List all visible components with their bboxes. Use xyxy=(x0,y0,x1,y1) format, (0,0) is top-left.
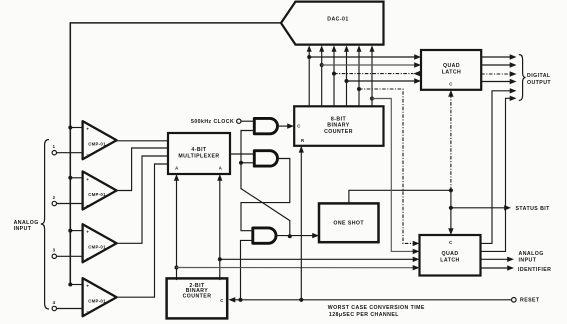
wire + input stub comparator 3 xyxy=(68,229,82,233)
terminal input 1 xyxy=(52,144,56,155)
svg-text:–: – xyxy=(86,203,89,208)
wire terminal 1 to comparator 1 - input xyxy=(57,152,83,154)
svg-text:CMP-01: CMP-01 xyxy=(88,192,106,197)
wire counter bit 4 to latch row 4 xyxy=(347,78,422,83)
svg-text:4-BIT: 4-BIT xyxy=(191,147,207,153)
svg-text:COUNTER: COUNTER xyxy=(183,294,212,300)
wire lower latch output row 2 up to digital output row 6 xyxy=(481,96,517,252)
svg-text:CMP-01: CMP-01 xyxy=(88,245,106,250)
svg-text:INPUT: INPUT xyxy=(14,226,32,232)
terminal reset xyxy=(512,298,540,304)
svg-text:C: C xyxy=(220,298,223,303)
svg-text:QUAD: QUAD xyxy=(443,63,460,69)
wire counter bit 4 to DAC xyxy=(344,45,349,106)
wire gate G3 bottom input to reset line xyxy=(238,240,253,302)
svg-text:CMP-01: CMP-01 xyxy=(88,299,106,304)
comparator U8 CMP-01 channel 1 xyxy=(83,121,117,159)
svg-text:A: A xyxy=(219,166,222,171)
svg-text:C: C xyxy=(297,123,300,128)
svg-text:C: C xyxy=(449,240,452,245)
wire counter bit 3 to DAC xyxy=(332,45,337,106)
wire 2-bit counter output A1 to multiplexer xyxy=(174,174,179,280)
svg-text:–: – xyxy=(86,309,89,314)
svg-text:OUTPUT: OUTPUT xyxy=(527,80,551,86)
wire gate G1 output to 8-bit counter C input xyxy=(277,123,294,128)
digital output brace xyxy=(519,55,552,101)
comparator U9 CMP-01 channel 2 xyxy=(83,171,117,209)
wire counter bit 2 to latch row 2 xyxy=(322,62,421,67)
wire counter bit 3 dash-dot row to latch (reverse arrow) xyxy=(334,71,421,76)
wire lower latch output row 1 up to digital output row 5 xyxy=(481,88,517,243)
wire reset line to 2-bit counter C input xyxy=(229,297,512,302)
svg-text:RESET: RESET xyxy=(520,298,540,304)
svg-text:+: + xyxy=(86,284,89,289)
wire comparator 4 output to multiplexer xyxy=(117,164,168,297)
2-bit binary counter U7 xyxy=(167,278,228,318)
wire gate G3 output to one shot input xyxy=(276,233,319,238)
svg-text:DAC-01: DAC-01 xyxy=(327,17,348,23)
svg-text:8-BIT: 8-BIT xyxy=(331,116,347,122)
svg-text:2: 2 xyxy=(53,195,56,200)
svg-text:WORST CASE CONVERSION TIME: WORST CASE CONVERSION TIME xyxy=(328,305,425,311)
wire counter bit 5 to DAC xyxy=(357,45,362,106)
svg-text:LATCH: LATCH xyxy=(440,258,459,264)
svg-text:–: – xyxy=(86,152,89,157)
svg-text:INPUT: INPUT xyxy=(519,258,537,264)
svg-text:3: 3 xyxy=(53,248,56,253)
wire comparator 2 output to multiplexer xyxy=(117,148,168,191)
comparator U11 CMP-01 channel 4 xyxy=(83,278,117,316)
note worst case conversion time xyxy=(328,305,425,318)
svg-text:C: C xyxy=(449,81,452,86)
svg-text:BINARY: BINARY xyxy=(327,123,349,129)
svg-text:128μSEC PER CHANNEL: 128μSEC PER CHANNEL xyxy=(329,312,399,318)
DAC U1 DAC-01 xyxy=(281,2,384,45)
svg-text:–: – xyxy=(86,255,89,260)
wire + input stub comparator 4 xyxy=(68,283,82,287)
terminal input 3 xyxy=(52,248,56,259)
wire terminal 3 to comparator 3 - input xyxy=(57,255,83,257)
wire counter bit 1 to DAC xyxy=(307,45,312,106)
analog input brace xyxy=(14,140,49,310)
wire comparator 1 output to multiplexer xyxy=(117,140,168,142)
AND gate G1 (clock gate) xyxy=(254,118,277,133)
svg-text:ANALOG: ANALOG xyxy=(14,220,39,226)
one shot U5 xyxy=(319,203,379,242)
wire counter bit 6 to lower latch input 2 xyxy=(372,99,420,255)
AND gate G2 xyxy=(254,151,277,166)
comparator U10 CMP-01 channel 3 xyxy=(83,224,117,262)
wire channel address bus bit 2 to lower latch input 4 xyxy=(177,265,420,270)
svg-text:+: + xyxy=(86,230,89,235)
wire gate G2 output to gate G3 top input xyxy=(241,159,290,231)
svg-text:ONE SHOT: ONE SHOT xyxy=(333,221,364,227)
svg-text:ANALOG: ANALOG xyxy=(519,251,544,257)
svg-text:500kHz CLOCK: 500kHz CLOCK xyxy=(191,119,234,125)
wire DAC output feedback to comparator + bus xyxy=(70,23,281,285)
wire gate G3 output net to G1 and G2 lower inputs (with diagonal) xyxy=(239,131,292,239)
wire lower latch output identifier xyxy=(481,265,515,270)
svg-text:+: + xyxy=(86,177,89,182)
wire lower latch output analog input address xyxy=(481,257,515,262)
wire + input stub comparator 2 xyxy=(68,176,82,180)
wire counter bit 5 to lower latch input 1 xyxy=(359,89,420,246)
terminal input 4 xyxy=(52,300,56,311)
svg-text:IDENTIFIER: IDENTIFIER xyxy=(518,267,551,273)
wire counter bit 1 to latch row 1 xyxy=(309,54,421,59)
svg-text:CMP-01: CMP-01 xyxy=(88,142,106,147)
svg-text:LATCH: LATCH xyxy=(442,70,461,76)
wire counter bit 2 to DAC xyxy=(319,45,324,106)
quad latch U2 (digital output latch) xyxy=(421,50,481,90)
svg-text:QUAD: QUAD xyxy=(441,251,458,257)
wire one shot output to latch strobes and status bit xyxy=(349,90,511,235)
terminal input 2 xyxy=(52,195,56,206)
svg-text:4: 4 xyxy=(53,300,56,305)
svg-text:A: A xyxy=(175,166,178,171)
label analog input (channel address) xyxy=(519,251,544,264)
svg-text:DIGITAL: DIGITAL xyxy=(527,73,551,79)
wire + input stub comparator 1 xyxy=(68,126,82,130)
svg-text:COUNTER: COUNTER xyxy=(324,129,353,135)
wire channel address bus bit 1 to lower latch input 3 xyxy=(220,257,420,262)
wire clock terminal to gate G1 top input xyxy=(241,120,255,122)
quad latch U6 (analog input / identifier latch) xyxy=(420,235,481,276)
wire comparator 3 output to multiplexer xyxy=(117,156,168,243)
svg-text:R: R xyxy=(301,138,305,143)
svg-text:+: + xyxy=(86,127,89,132)
wire terminal 2 to comparator 2 - input xyxy=(57,203,83,205)
8-bit binary counter U3 xyxy=(294,106,383,146)
svg-text:MULTIPLEXER: MULTIPLEXER xyxy=(178,154,219,160)
wire multiplexer output to gate G2 top input xyxy=(230,153,255,155)
wire latch digital outputs rows 1-4 xyxy=(481,54,516,84)
4-bit multiplexer U4 xyxy=(168,133,230,174)
wire 2-bit counter output A2 to multiplexer xyxy=(217,174,222,280)
wire reset branch to 8-bit counter R input xyxy=(299,146,304,300)
terminal 500kHz clock xyxy=(191,119,241,125)
svg-text:STATUS BIT: STATUS BIT xyxy=(516,206,551,212)
svg-text:1: 1 xyxy=(53,144,56,149)
AND gate G3 xyxy=(253,228,276,243)
wire terminal 4 to comparator 4 - input xyxy=(57,308,83,310)
wire counter bit 6 to DAC xyxy=(370,45,375,106)
